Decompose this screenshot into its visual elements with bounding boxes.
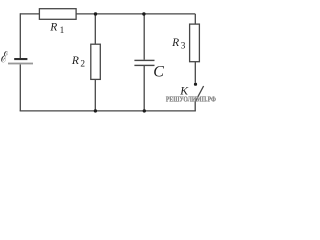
- battery long plate: [8, 63, 33, 65]
- svg-text:R: R: [71, 55, 79, 67]
- node dot top R2: [94, 12, 97, 15]
- wire R3 to switch dot: [194, 62, 196, 83]
- svg-text:РЕШУОЛИМП.РФ: РЕШУОЛИМП.РФ: [166, 95, 216, 104]
- wire bottom: [20, 110, 196, 112]
- node dot bottom R2: [94, 109, 97, 112]
- resistor R1: [39, 9, 76, 20]
- switch contact dot: [194, 83, 197, 86]
- resistor R3: [190, 24, 200, 62]
- svg-text:R: R: [171, 37, 179, 49]
- label R3: [171, 37, 186, 52]
- svg-text:2: 2: [80, 60, 85, 70]
- switch K lever: [195, 86, 203, 102]
- label R1: [49, 22, 64, 36]
- wire R2 branch lower: [94, 79, 96, 111]
- svg-text:3: 3: [181, 41, 186, 51]
- capacitor C bottom plate: [134, 65, 154, 66]
- resistor R2: [91, 44, 101, 79]
- svg-text:1: 1: [60, 26, 65, 36]
- node dot bottom C: [143, 109, 146, 112]
- label R2: [71, 55, 86, 69]
- switch bottom stub: [194, 102, 196, 111]
- wire C branch lower: [143, 65, 145, 111]
- label EMF script E: [1, 51, 8, 62]
- wire R3 branch upper: [194, 14, 196, 24]
- capacitor C top plate: [134, 60, 154, 61]
- svg-text:R: R: [49, 22, 57, 34]
- wire top left segment: [20, 13, 39, 15]
- svg-text:C: C: [153, 64, 164, 81]
- node dot top C: [142, 12, 145, 15]
- battery short plate: [14, 58, 27, 60]
- wire R2 branch upper: [94, 14, 96, 44]
- wire left upper: [19, 13, 21, 58]
- wire left lower: [19, 64, 21, 111]
- wire top right segment: [76, 13, 195, 15]
- wire C branch upper: [143, 14, 145, 60]
